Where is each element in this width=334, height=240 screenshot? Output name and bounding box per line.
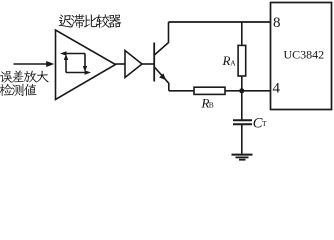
svg-text:R: R — [222, 53, 231, 68]
svg-text:4: 4 — [273, 80, 281, 96]
svg-text:A: A — [230, 59, 236, 68]
svg-text:8: 8 — [273, 15, 281, 31]
svg-text:UC3842: UC3842 — [284, 48, 325, 62]
svg-text:T: T — [262, 119, 267, 128]
svg-text:B: B — [209, 101, 214, 110]
